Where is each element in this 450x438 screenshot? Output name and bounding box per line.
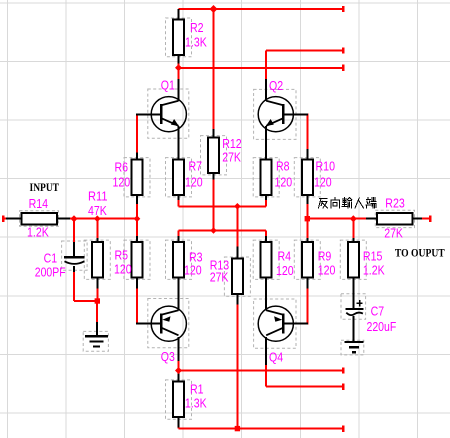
svg-text:TO OUPUT: TO OUPUT	[395, 246, 445, 260]
svg-text:27K: 27K	[210, 270, 229, 285]
svg-text:INPUT: INPUT	[30, 180, 60, 194]
svg-text:R15: R15	[363, 249, 383, 264]
svg-text:120: 120	[318, 263, 336, 278]
svg-text:R6: R6	[115, 160, 129, 175]
svg-text:27K: 27K	[384, 226, 403, 241]
svg-text:1.3K: 1.3K	[185, 34, 207, 49]
svg-text:Q4: Q4	[269, 350, 283, 365]
svg-text:R2: R2	[190, 20, 204, 35]
svg-text:C7: C7	[371, 304, 385, 319]
svg-text:R7: R7	[189, 159, 203, 174]
svg-text:220uF: 220uF	[367, 319, 397, 334]
svg-text:1.2K: 1.2K	[27, 225, 49, 240]
svg-text:200PF: 200PF	[35, 265, 66, 280]
svg-text:120: 120	[276, 263, 294, 278]
svg-text:C1: C1	[44, 251, 58, 266]
svg-text:R5: R5	[115, 248, 129, 263]
svg-text:120: 120	[114, 262, 132, 277]
svg-text:47K: 47K	[88, 203, 107, 218]
svg-text:Q1: Q1	[161, 78, 175, 93]
svg-text:R11: R11	[88, 189, 108, 204]
svg-text:120: 120	[184, 263, 202, 278]
svg-text:R10: R10	[316, 159, 336, 174]
svg-text:120: 120	[275, 175, 293, 190]
svg-text:R4: R4	[278, 249, 292, 264]
svg-text:R8: R8	[276, 159, 290, 174]
svg-text:R9: R9	[318, 249, 332, 264]
svg-text:120: 120	[185, 175, 203, 190]
svg-text:1.3K: 1.3K	[185, 396, 207, 411]
svg-text:120: 120	[113, 175, 131, 190]
svg-text:1.2K: 1.2K	[363, 263, 385, 278]
svg-text:R23: R23	[385, 195, 405, 210]
svg-text:R14: R14	[29, 196, 48, 211]
svg-text:27K: 27K	[222, 150, 241, 165]
svg-text:120: 120	[314, 175, 332, 190]
svg-text:Q3: Q3	[161, 349, 175, 364]
svg-text:R1: R1	[190, 382, 204, 397]
svg-text:Q2: Q2	[269, 78, 283, 93]
